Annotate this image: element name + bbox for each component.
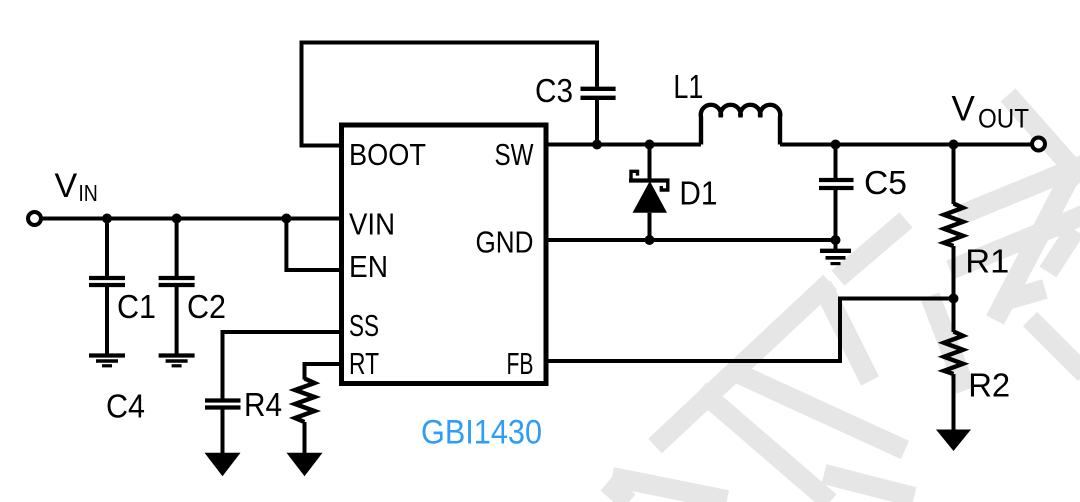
terminal VIN input bbox=[28, 212, 41, 225]
node junction C1 bbox=[102, 214, 112, 224]
pin label BOOT bbox=[349, 137, 426, 172]
svg-text:SW: SW bbox=[495, 137, 535, 172]
svg-text:IN: IN bbox=[78, 180, 98, 206]
pin label FB bbox=[507, 346, 534, 381]
inductor L1 bbox=[701, 105, 780, 145]
pin label RT bbox=[349, 346, 379, 381]
svg-text:L1: L1 bbox=[673, 68, 703, 105]
svg-text:C1: C1 bbox=[117, 288, 156, 325]
capacitor C1 bbox=[89, 219, 125, 354]
capacitor C5 bbox=[819, 145, 854, 241]
node junction FB tap bbox=[949, 294, 959, 304]
svg-text:GND: GND bbox=[476, 225, 534, 260]
label C3 bbox=[535, 72, 573, 109]
svg-text:C5: C5 bbox=[864, 164, 907, 201]
wire EN branch bbox=[286, 219, 341, 271]
node junction C2 bbox=[172, 214, 182, 224]
capacitor C3 bbox=[581, 89, 616, 145]
node label VIN bbox=[55, 167, 98, 206]
ground earth C1 bbox=[89, 356, 125, 366]
wire SS branch bbox=[223, 332, 342, 399]
svg-text:R1: R1 bbox=[965, 243, 1009, 280]
svg-text:BOOT: BOOT bbox=[349, 137, 426, 172]
wire GND run bbox=[546, 238, 836, 242]
label GBI1430 bbox=[421, 414, 542, 452]
terminal VOUT output bbox=[1032, 138, 1045, 151]
ground arrow C4 bbox=[205, 453, 241, 477]
watermark CONFIDENTIAL (gray diagonal letter strokes) bbox=[607, 95, 1080, 502]
resistor R1 bbox=[944, 145, 963, 299]
label C4 bbox=[106, 388, 145, 425]
wire VOUT bus bbox=[780, 143, 1032, 147]
pin label VIN bbox=[349, 207, 395, 242]
ground earth C5 bbox=[820, 240, 851, 264]
ground earth C2 bbox=[159, 356, 195, 366]
svg-text:V: V bbox=[952, 89, 976, 128]
label C5 bbox=[864, 164, 907, 201]
svg-text:D1: D1 bbox=[679, 175, 717, 212]
pin label SW bbox=[495, 137, 535, 172]
svg-text:FB: FB bbox=[507, 346, 534, 381]
label C2 bbox=[187, 288, 226, 325]
node junction D1-SW bbox=[645, 140, 655, 150]
label D1 bbox=[679, 175, 717, 212]
wire SW node bbox=[546, 143, 701, 147]
capacitor C2 bbox=[159, 219, 195, 354]
wire BOOT loop bbox=[302, 43, 598, 146]
capacitor C4 bbox=[205, 401, 241, 454]
node junction C5 bottom bbox=[831, 235, 841, 245]
svg-text:SS: SS bbox=[349, 308, 379, 343]
svg-text:EN: EN bbox=[349, 249, 388, 284]
svg-text:R2: R2 bbox=[968, 367, 1010, 404]
svg-text:VIN: VIN bbox=[349, 207, 395, 242]
svg-text:V: V bbox=[55, 167, 78, 205]
op-amp U1 GBI1430 IC body bbox=[342, 125, 547, 384]
pin label EN bbox=[349, 249, 388, 284]
diode D1 schottky bbox=[629, 145, 670, 241]
svg-text:C2: C2 bbox=[187, 288, 226, 325]
label C1 bbox=[117, 288, 156, 325]
wire RT branch bbox=[305, 364, 342, 380]
resistor R2 bbox=[944, 299, 963, 431]
pin label SS bbox=[349, 308, 379, 343]
svg-text:C3: C3 bbox=[535, 72, 573, 109]
wire FB link bbox=[546, 299, 954, 362]
node junction C5 top bbox=[831, 140, 841, 150]
node label VOUT bbox=[952, 89, 1030, 133]
svg-text:OUT: OUT bbox=[978, 104, 1029, 134]
node junction EN tap bbox=[281, 214, 291, 224]
label R4 bbox=[244, 386, 282, 423]
label L1 bbox=[673, 68, 703, 105]
svg-text:R4: R4 bbox=[244, 386, 282, 423]
resistor R4 bbox=[295, 379, 315, 454]
svg-text:RT: RT bbox=[349, 346, 379, 381]
node junction R1 top bbox=[949, 140, 959, 150]
node junction C3-SW bbox=[592, 140, 602, 150]
ground arrow R2 bbox=[936, 430, 971, 452]
node junction D1 anode bbox=[645, 235, 655, 245]
label R2 bbox=[968, 367, 1010, 404]
label R1 bbox=[965, 243, 1009, 280]
wire VIN bus bbox=[41, 217, 342, 221]
ground arrow R4 bbox=[287, 453, 323, 477]
svg-text:C4: C4 bbox=[106, 388, 145, 425]
svg-text:GBI1430: GBI1430 bbox=[421, 414, 542, 452]
pin label GND bbox=[476, 225, 534, 260]
